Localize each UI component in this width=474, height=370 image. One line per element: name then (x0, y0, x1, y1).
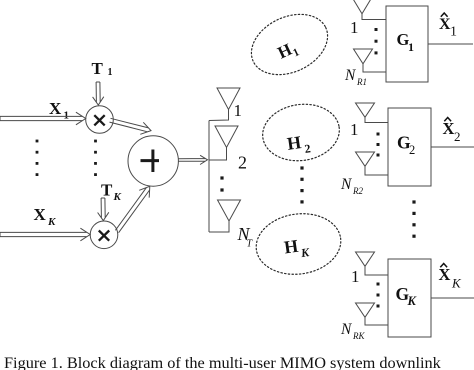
channel HK ellipse (252, 208, 345, 279)
svg-text:X: X (443, 119, 455, 138)
svg-text:1: 1 (350, 120, 359, 139)
svg-text:N: N (340, 176, 353, 193)
wire input arrow XK (0, 228, 90, 241)
svg-text:2: 2 (409, 143, 415, 157)
wire arrow T1 down (93, 82, 104, 105)
wire output 1 (428, 43, 473, 45)
wire arrow summer to antenna bus (178, 155, 207, 164)
svg-text:Figure 1. Block diagram of the: Figure 1. Block diagram of the multi-use… (4, 353, 442, 370)
dots channel column (300, 166, 303, 169)
svg-text:R2: R2 (352, 186, 363, 196)
wire arrow MK to summer (115, 186, 149, 232)
svg-text:K: K (407, 294, 418, 308)
svg-text:RK: RK (352, 331, 365, 341)
svg-text:1: 1 (108, 67, 113, 78)
svg-text:N: N (344, 67, 357, 84)
receiver G2 (388, 108, 431, 186)
wire arrow TK down (98, 198, 109, 221)
svg-text:T: T (247, 239, 254, 250)
svg-text:R1: R1 (356, 77, 367, 87)
dots antenna column (220, 176, 223, 179)
antenna RX 2-1 (356, 103, 389, 123)
antenna TX1 (209, 88, 240, 121)
summer (128, 136, 178, 186)
svg-text:H: H (283, 236, 300, 258)
wire arrow M1 to summer (110, 118, 152, 134)
svg-text:2: 2 (454, 129, 461, 144)
svg-text:1: 1 (64, 110, 70, 122)
antenna RX 1-1 (353, 0, 387, 20)
channel H1 ellipse (242, 3, 338, 87)
dots receiver 2 (377, 133, 380, 136)
dots receiver 1 (375, 28, 378, 31)
wire antenna bus (208, 121, 210, 233)
svg-text:X: X (34, 205, 47, 224)
antenna RX 1-NR1 (354, 49, 387, 72)
wire input arrow X1 (0, 112, 86, 125)
multiplier M1 (86, 106, 114, 134)
channel H2 ellipse (259, 99, 343, 165)
svg-text:X: X (49, 99, 62, 118)
svg-text:K: K (113, 191, 122, 203)
svg-text:K: K (451, 276, 462, 291)
dots below M1 (94, 140, 97, 143)
svg-text:1: 1 (350, 18, 359, 37)
svg-text:1: 1 (450, 25, 457, 40)
wire output 2 (431, 146, 474, 148)
svg-text:1: 1 (351, 267, 360, 286)
antenna RX 2-NR2 (356, 152, 389, 175)
antenna TX NT (209, 200, 241, 232)
antenna RX K-NRK (356, 303, 389, 325)
svg-text:H: H (286, 132, 303, 154)
svg-text:X: X (439, 265, 451, 284)
svg-text:2: 2 (304, 141, 312, 156)
svg-text:T: T (92, 59, 104, 78)
svg-text:1: 1 (408, 40, 414, 54)
svg-text:K: K (47, 216, 56, 228)
receiver GK (388, 259, 431, 337)
antenna TX2 (209, 126, 238, 160)
receiver G1 (386, 6, 428, 82)
svg-text:1: 1 (234, 101, 243, 120)
svg-text:T: T (101, 181, 113, 200)
svg-text:N: N (340, 321, 353, 338)
dots receiver K (377, 283, 380, 286)
svg-text:2: 2 (238, 153, 247, 173)
antenna RX K-1 (356, 252, 389, 275)
dots left column (36, 140, 39, 143)
wire output K (431, 297, 474, 299)
multiplier MK (90, 221, 118, 249)
svg-text:K: K (299, 245, 311, 260)
dots receivers column (412, 200, 415, 203)
